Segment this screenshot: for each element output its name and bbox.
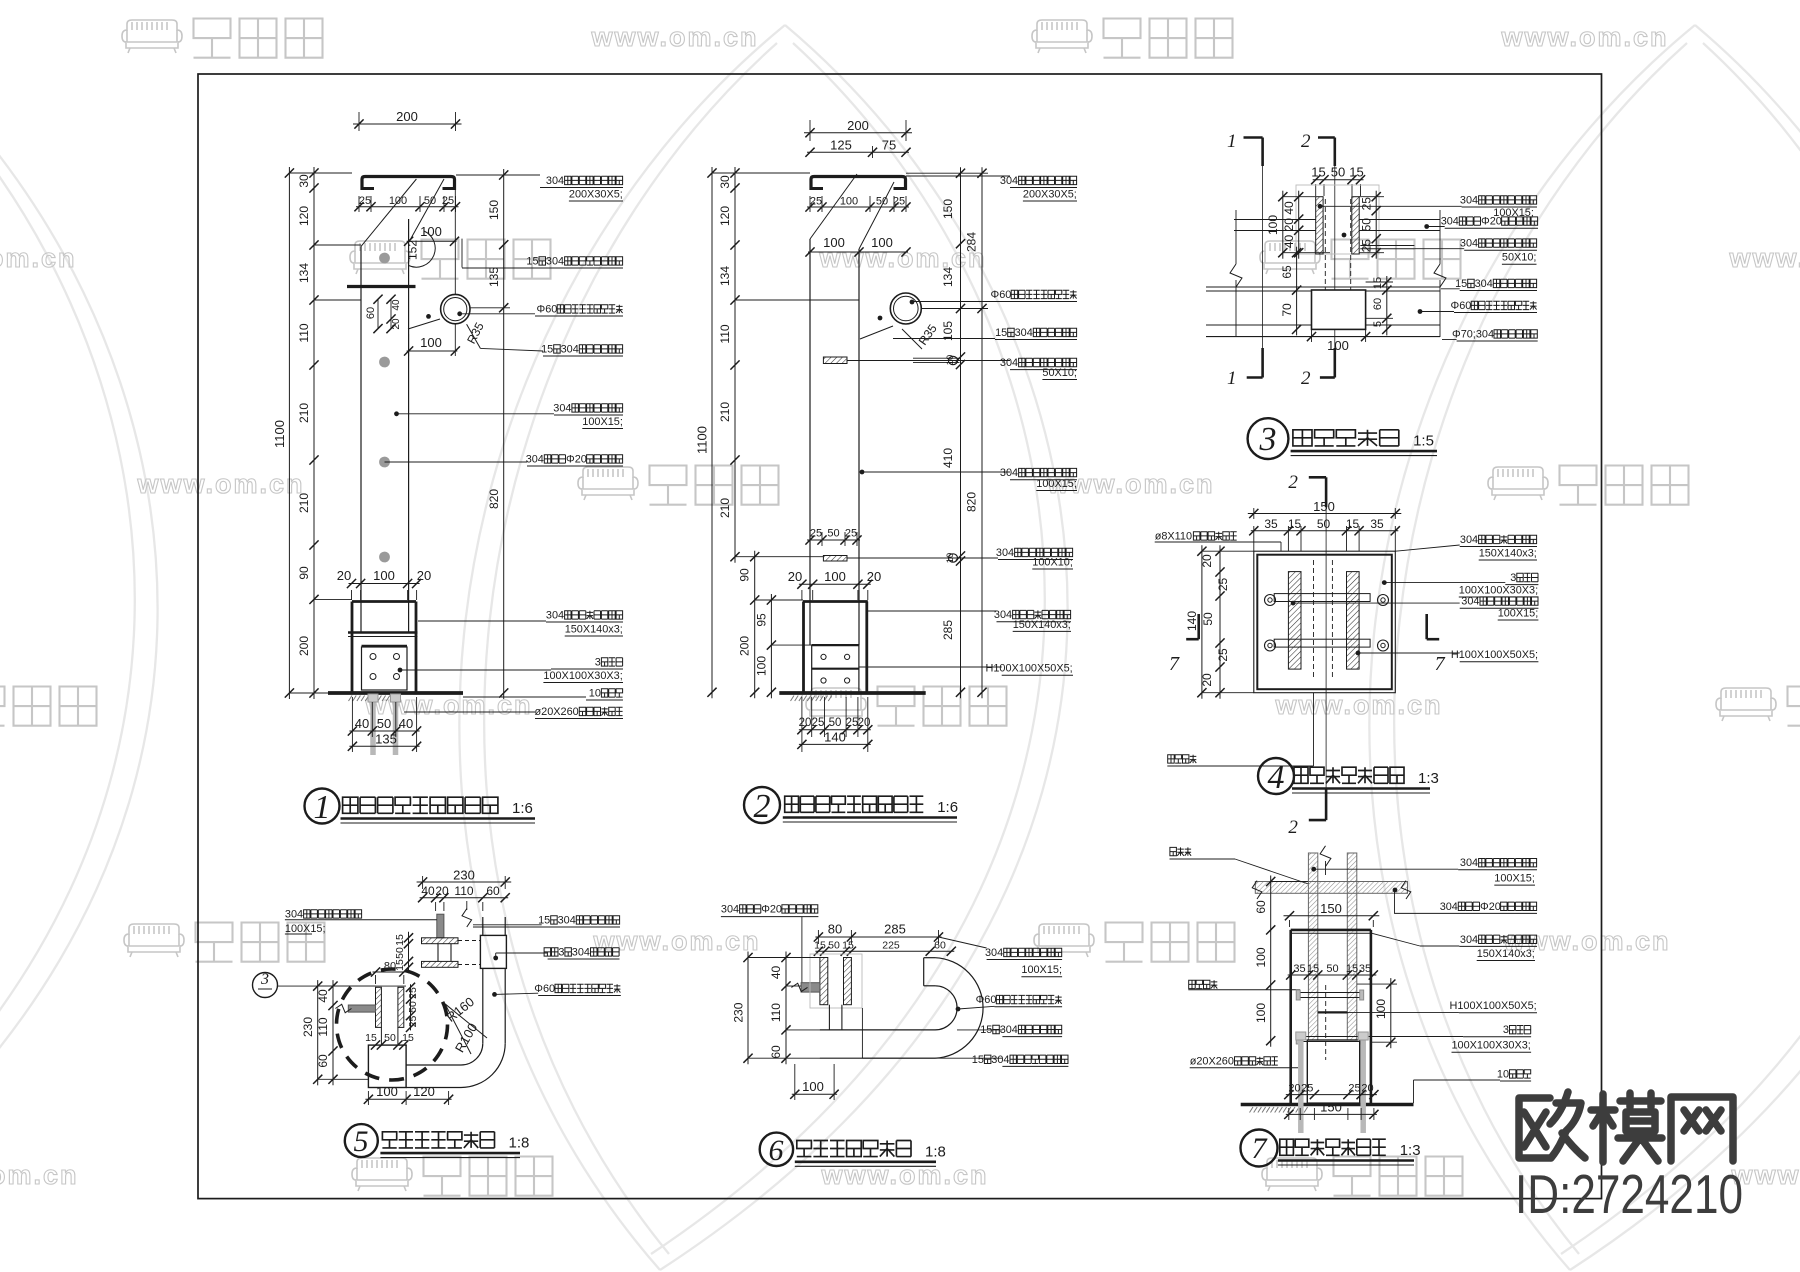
drawing4 post base plan (1155, 472, 1539, 838)
d5 inner gray bar (348, 1005, 375, 1012)
svg-text:40: 40 (1282, 201, 1296, 215)
d3 plate right (1352, 197, 1359, 254)
svg-text:100: 100 (1254, 1003, 1268, 1023)
svg-text:110: 110 (769, 1003, 783, 1022)
svg-text:H100X100X50X5;: H100X100X50X5; (986, 663, 1073, 675)
svg-text:304: 304 (561, 343, 579, 355)
d7 dim 35-15-50-15-35 (1288, 974, 1377, 976)
svg-text:www.om.cn: www.om.cn (1274, 690, 1442, 720)
d7 H beam line (1318, 1011, 1348, 1013)
svg-text:120: 120 (297, 206, 311, 226)
d2 label 100X15 (860, 470, 865, 475)
d3 dim 15-50-15 (1315, 184, 1317, 196)
svg-text:100: 100 (824, 569, 846, 584)
d5 chain 15-50-15 (408, 932, 410, 974)
svg-text:100X15;: 100X15; (285, 923, 326, 935)
d7 bottom dims (1288, 1108, 1290, 1120)
d3 handrail elevation lines (1206, 286, 1440, 288)
svg-text:200: 200 (847, 118, 869, 133)
d4 left chain 20-25-50-25-20 (1219, 545, 1221, 699)
svg-text:304: 304 (285, 908, 303, 920)
d2 right chain inner (960, 167, 962, 698)
d2 diagonal to circle (860, 326, 893, 339)
svg-text:Φ60: Φ60 (976, 994, 997, 1006)
svg-text:7: 7 (1169, 653, 1180, 675)
d3 break lines (1235, 210, 1237, 264)
svg-text:1: 1 (1227, 368, 1237, 389)
d6 handrail U (820, 1029, 935, 1031)
d3 label phi20 rod (1424, 224, 1429, 229)
d3 dashed bolt lines (1324, 199, 1326, 292)
svg-text:304: 304 (1441, 216, 1459, 228)
drawing1 stainless railing section-1 (272, 109, 623, 755)
svg-text:4: 4 (1268, 759, 1285, 796)
svg-text:304: 304 (1460, 194, 1478, 206)
svg-text:100X15;: 100X15; (1498, 607, 1539, 619)
svg-text:30: 30 (297, 174, 311, 188)
svg-text:35: 35 (1293, 963, 1305, 975)
svg-text:50: 50 (827, 528, 839, 540)
svg-text:150: 150 (1320, 1100, 1342, 1115)
svg-text:15: 15 (365, 1032, 377, 1044)
svg-text:304: 304 (721, 903, 739, 915)
svg-text:50: 50 (377, 716, 391, 731)
svg-text:www.om.cn: www.om.cn (1500, 22, 1668, 52)
d7 right chain 100 (1390, 978, 1392, 1048)
d1 left dim chain 1100 (288, 167, 290, 699)
svg-text:100: 100 (1374, 999, 1388, 1019)
svg-text:50: 50 (1317, 517, 1331, 531)
svg-text:304: 304 (991, 1054, 1009, 1066)
d6 label flat 100X15 (939, 937, 987, 948)
d4 dashed anchor lines (1313, 560, 1315, 680)
d1 label phi20 rod (385, 461, 528, 463)
svg-text:15: 15 (1346, 517, 1360, 531)
svg-text:15: 15 (1307, 963, 1319, 975)
svg-text:ID:2724210: ID:2724210 (1515, 1163, 1743, 1225)
d7 label angle steel (1367, 1036, 1463, 1038)
svg-text:150: 150 (1320, 901, 1342, 916)
d4 label flat 100X15 (1291, 601, 1296, 606)
d5 handrail sleeve box right (480, 935, 506, 968)
d1 phi20 rod sections (379, 253, 390, 264)
d4 tie bolt label (1168, 755, 1197, 763)
d3 right chain 25-50-25 (1375, 191, 1377, 259)
svg-text:15: 15 (526, 255, 538, 267)
d4 dim 35-15-50-15-35 (1253, 526, 1255, 551)
svg-text:www.om.cn: www.om.cn (0, 243, 77, 273)
svg-text:Φ20: Φ20 (761, 903, 782, 915)
d1 dim 25-100-50-25 (358, 196, 360, 212)
d7 label flat 100X15 (1311, 867, 1316, 872)
svg-text:15: 15 (394, 934, 406, 946)
svg-text:820: 820 (965, 492, 979, 512)
svg-text:150: 150 (1313, 499, 1335, 514)
drawing2 title (744, 787, 780, 823)
svg-text:210: 210 (718, 498, 732, 518)
svg-text:Φ20: Φ20 (1480, 901, 1501, 913)
drawing1 title (305, 789, 340, 824)
svg-text:10: 10 (945, 553, 956, 564)
d5 inner dim 15-50-15 (373, 1044, 407, 1046)
svg-text:100: 100 (1327, 338, 1349, 353)
svg-text:10: 10 (589, 687, 601, 699)
d1 bracket plate 15 thick (347, 285, 416, 288)
d7 tie bolts (1300, 992, 1360, 994)
svg-text:304: 304 (526, 453, 544, 465)
svg-text:15: 15 (972, 1054, 984, 1066)
d4 section line 2-2 (1325, 507, 1327, 789)
d2 dim 25-100-50-25 (809, 196, 811, 212)
d2 bottom dims (801, 697, 803, 737)
svg-text:ø20X260: ø20X260 (535, 706, 579, 718)
svg-text:2: 2 (1301, 131, 1311, 152)
svg-text:75: 75 (882, 138, 896, 153)
svg-text:1:6: 1:6 (937, 799, 958, 816)
d2 R35 (902, 329, 922, 349)
svg-text:20: 20 (799, 717, 812, 729)
d4 label flange (1395, 545, 1459, 551)
svg-text:40: 40 (1282, 235, 1296, 249)
svg-text:H100X100X50X5;: H100X100X50X5; (1450, 1000, 1537, 1012)
d2 left chain 1100 (711, 167, 713, 698)
svg-text:10: 10 (945, 355, 956, 366)
svg-text:140: 140 (1185, 611, 1199, 631)
d2 label 15thick (893, 338, 995, 340)
svg-text:210: 210 (297, 493, 311, 513)
svg-text:6: 6 (769, 1134, 784, 1167)
svg-text:60: 60 (934, 940, 946, 952)
d5 plate bottom hatched (422, 961, 459, 967)
d1 top channel 200X30X5 (362, 177, 455, 191)
svg-text:2: 2 (1288, 472, 1298, 493)
svg-text:30: 30 (718, 175, 732, 189)
svg-text:304: 304 (1015, 327, 1033, 339)
drawing5 railing corner detail (253, 868, 621, 1106)
svg-text:304: 304 (553, 402, 571, 414)
svg-text:100X15;: 100X15; (582, 416, 623, 428)
svg-text:200: 200 (738, 636, 752, 656)
svg-text:150X140x3;: 150X140x3; (1477, 948, 1535, 960)
d2 left chain 95-100 (770, 594, 772, 698)
svg-text:210: 210 (718, 402, 732, 422)
svg-text:230: 230 (301, 1017, 315, 1037)
svg-text:1: 1 (1227, 131, 1237, 152)
svg-text:50: 50 (1201, 612, 1215, 626)
svg-text:25: 25 (1216, 648, 1230, 662)
svg-text:1:3: 1:3 (1418, 770, 1439, 787)
d6 plates hatched (820, 958, 828, 1005)
d6 label phi60 (956, 1007, 961, 1012)
svg-text:25: 25 (1360, 197, 1374, 211)
drawing4 title (1258, 758, 1294, 794)
svg-text:134: 134 (941, 267, 955, 287)
svg-text:100X100X30X3;: 100X100X30X3; (1459, 584, 1538, 596)
drawing7 title (1241, 1130, 1278, 1167)
d2 top channel (811, 177, 906, 191)
svg-text:35: 35 (1264, 517, 1278, 531)
d4 dim 150 (1253, 508, 1255, 519)
d4 plate left (1288, 572, 1301, 670)
svg-text:20: 20 (1288, 1083, 1300, 1095)
svg-text:25: 25 (407, 1016, 419, 1028)
svg-text:304: 304 (1475, 278, 1493, 290)
d7 angle steel box (1307, 1040, 1359, 1103)
svg-text:285: 285 (884, 922, 906, 937)
svg-text:110: 110 (718, 324, 732, 343)
border frame (198, 74, 1602, 1199)
d5 vertical flat bar gray (437, 914, 444, 938)
d7 rail hatched (1255, 882, 1407, 894)
svg-text:1100: 1100 (272, 420, 287, 448)
svg-text:www.om.cn: www.om.cn (590, 22, 758, 52)
svg-text:2: 2 (754, 788, 771, 825)
d1 ground plate 10 thick (328, 691, 463, 695)
svg-text:ø20X260: ø20X260 (1190, 1055, 1234, 1067)
svg-text:40: 40 (421, 884, 435, 898)
svg-text:304: 304 (572, 946, 590, 958)
svg-text:50X10;: 50X10; (1042, 367, 1077, 379)
svg-text:80: 80 (384, 961, 396, 973)
drawing3 title (1248, 418, 1289, 459)
d3 dim 100 sleeve (1307, 332, 1316, 341)
svg-text:20: 20 (867, 569, 881, 584)
svg-text:25: 25 (846, 717, 859, 729)
svg-text:3: 3 (1510, 572, 1516, 584)
d7 anchor bolts (1298, 1035, 1304, 1133)
svg-text:150X140x3;: 150X140x3; (565, 623, 623, 635)
d5 bottom dim 100-120 (367, 1091, 369, 1105)
d5 corner arcs (461, 1043, 505, 1087)
d7 left chain 60-100-100 (1270, 876, 1272, 1047)
svg-text:15: 15 (1372, 277, 1384, 289)
drawing7 post base elevation-2 (1170, 846, 1538, 1133)
svg-text:15: 15 (1349, 165, 1363, 180)
svg-text:20: 20 (337, 568, 351, 583)
d3 flat bar 50x10 right (1360, 245, 1414, 247)
d2 dim 25-50-25 lower (809, 532, 811, 546)
svg-text:20: 20 (858, 717, 871, 729)
d1 angle steel box (362, 645, 408, 647)
d2 label channel (906, 175, 1010, 177)
d6 light box (810, 954, 862, 1008)
d3 section lines (1262, 166, 1264, 348)
svg-text:3: 3 (558, 946, 564, 958)
svg-text:15: 15 (402, 1032, 414, 1044)
svg-text:100: 100 (376, 1084, 398, 1099)
d3 light box (1296, 185, 1379, 254)
svg-text:Φ60: Φ60 (537, 303, 558, 315)
d5 handrail vertical (482, 917, 484, 935)
d2 post bars (809, 239, 811, 645)
svg-text:150X140x3;: 150X140x3; (1013, 619, 1071, 631)
svg-text:15: 15 (538, 914, 550, 926)
svg-text:304: 304 (558, 914, 576, 926)
svg-text:134: 134 (718, 266, 732, 286)
d5 label outer 3thick (493, 956, 498, 961)
d7 post plates hatched (1308, 853, 1317, 1040)
svg-text:35: 35 (1370, 517, 1384, 531)
svg-text:100X100X30X3;: 100X100X30X3; (543, 670, 622, 682)
svg-text:Φ60: Φ60 (534, 983, 555, 995)
d4 flange square 150x140 (1254, 551, 1396, 693)
svg-text:3: 3 (1503, 1024, 1509, 1036)
svg-text:304: 304 (1000, 467, 1018, 479)
svg-text:15: 15 (842, 940, 854, 952)
d7 flange box (1291, 929, 1371, 932)
svg-text:304: 304 (546, 175, 564, 187)
svg-text:304: 304 (994, 609, 1012, 621)
d1 label 15thick 304 (480, 348, 543, 351)
d3 label flat 100X15 (1318, 204, 1323, 209)
svg-text:1:3: 1:3 (1400, 1142, 1421, 1159)
d3 chain 65-70 (1296, 247, 1298, 336)
d2 dim 200 (809, 120, 811, 141)
d7 ground plate (1241, 1103, 1414, 1107)
d4 left chain 140 (1201, 545, 1203, 699)
d3 label phi60 (1420, 311, 1454, 313)
d2 right chain outer (981, 167, 983, 698)
svg-text:304: 304 (985, 947, 1003, 959)
svg-text:304: 304 (1461, 596, 1479, 608)
svg-text:410: 410 (941, 448, 955, 468)
d4 label angle steel (1382, 580, 1387, 585)
svg-text:1:8: 1:8 (509, 1135, 530, 1152)
svg-text:50: 50 (1331, 165, 1345, 180)
d6 label sleeve (861, 1008, 863, 1058)
svg-text:100: 100 (802, 1079, 824, 1094)
svg-text:60: 60 (1254, 900, 1268, 914)
svg-text:10: 10 (1497, 1068, 1509, 1080)
svg-text:www.om.cn: www.om.cn (820, 1160, 988, 1190)
drawing2 stainless railing section-2 (695, 118, 1078, 752)
drawing6 railing end detail (721, 903, 1069, 1100)
svg-text:100: 100 (1266, 215, 1280, 235)
svg-text:60: 60 (769, 1045, 783, 1059)
d7 label 10 thick (1413, 1080, 1415, 1103)
d5 R160 R100 callouts (445, 1004, 487, 1038)
d1 post 100x15 flat bars (360, 246, 362, 632)
svg-text:50: 50 (1360, 218, 1374, 232)
d1 anchor bolts (370, 697, 376, 755)
d1 right dim chain 150 135 820 (503, 169, 505, 699)
d5 dim 40-20-110-60 (435, 902, 437, 911)
svg-text:3: 3 (260, 971, 269, 988)
d5 dim 230 (422, 876, 424, 889)
svg-text:25: 25 (359, 195, 371, 207)
svg-text:100X15;: 100X15; (1036, 478, 1077, 490)
svg-text:5: 5 (1372, 321, 1384, 327)
svg-text:100: 100 (420, 335, 442, 350)
svg-text:100: 100 (754, 656, 768, 676)
svg-text:110: 110 (454, 884, 473, 898)
d1 label chemical anchor (404, 711, 535, 713)
svg-text:100: 100 (420, 224, 442, 239)
d3 plate left (1316, 197, 1323, 254)
svg-text:304: 304 (1460, 534, 1478, 546)
d5 plate top hatched (422, 938, 459, 944)
d4 bolt circles (1265, 595, 1276, 606)
d1 label angle steel (398, 668, 403, 673)
svg-text:100X15;: 100X15; (1021, 964, 1062, 976)
svg-text:Φ60: Φ60 (1451, 300, 1472, 312)
d1 flange box 150x140 (352, 600, 416, 603)
d2 angle steel box (812, 644, 859, 646)
d7 label flange (1372, 933, 1420, 946)
svg-text:80: 80 (828, 922, 842, 937)
svg-text:304: 304 (1460, 857, 1478, 869)
d2 left chain segments (734, 167, 736, 563)
d1 diagonal braces (361, 179, 416, 246)
d2 label flange (868, 610, 997, 612)
svg-text:25: 25 (1216, 578, 1230, 592)
d1 label 304 flat steel 200X30X5 (456, 174, 540, 176)
svg-text:25: 25 (442, 195, 454, 207)
d5 dashed detail circle (337, 969, 448, 1080)
svg-text:www.om.cn: www.om.cn (1728, 243, 1800, 273)
svg-text:20: 20 (1282, 218, 1296, 232)
svg-text:www.om.cn: www.om.cn (136, 469, 304, 499)
drawing3 post detail (1206, 131, 1538, 389)
d5 inner plates (376, 987, 382, 1027)
d1 label 15thick sleeve (461, 239, 463, 268)
d1 label flange 150X140x3 (418, 620, 546, 622)
d1 bottom dims 40-50-40-135 (351, 697, 353, 752)
svg-text:3: 3 (595, 656, 601, 668)
d5 sleeve lines down (380, 1027, 382, 1045)
svg-text:110: 110 (297, 323, 311, 342)
d5 corner box (368, 1045, 406, 1087)
svg-text:304: 304 (546, 255, 564, 267)
drawing6 title (760, 1133, 793, 1166)
svg-text:304: 304 (1000, 357, 1018, 369)
svg-text:100: 100 (1254, 947, 1268, 967)
svg-text:www.om.cn: www.om.cn (0, 1160, 79, 1190)
svg-text:1100: 1100 (695, 426, 710, 454)
d6 dim 15-50-15-225-60 (815, 950, 954, 952)
d3 chain 15-60-5 (1386, 276, 1388, 335)
svg-text:15: 15 (1288, 517, 1302, 531)
svg-text:200: 200 (396, 109, 418, 124)
svg-text:25: 25 (1301, 1083, 1313, 1095)
svg-text:100X15;: 100X15; (1494, 873, 1535, 885)
d6 left chain 230 (747, 952, 749, 1065)
svg-text:70: 70 (1280, 303, 1294, 317)
svg-text:7: 7 (1252, 1132, 1269, 1165)
svg-text:Φ20: Φ20 (1481, 216, 1502, 228)
svg-text:50: 50 (407, 1001, 419, 1013)
svg-text:304: 304 (1000, 1024, 1018, 1036)
svg-text:200: 200 (297, 636, 311, 656)
big watermark text oumo (1519, 1092, 1733, 1162)
svg-text:25: 25 (407, 987, 419, 999)
d6 dim 80-285 (817, 930, 819, 944)
svg-text:100: 100 (840, 196, 858, 208)
svg-text:284: 284 (965, 232, 979, 252)
d1 dim 20-100-20 (351, 590, 353, 600)
d3 left chain 100 (1282, 191, 1284, 259)
svg-text:140: 140 (824, 730, 846, 745)
d7 weld label (1170, 847, 1191, 855)
d1 dim 200 (358, 112, 360, 131)
svg-text:15: 15 (980, 1024, 992, 1036)
svg-text:25: 25 (1348, 1083, 1360, 1095)
svg-text:100X10;: 100X10; (1032, 556, 1073, 568)
d4 plate right (1347, 572, 1360, 670)
d2 flange box (803, 600, 868, 603)
d5 ref bubble 3 (253, 973, 278, 998)
svg-text:100: 100 (373, 568, 395, 583)
